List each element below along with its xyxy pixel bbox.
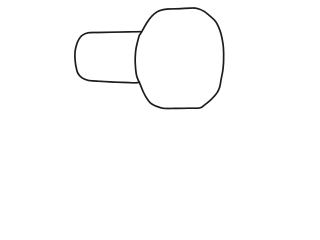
blob body outline — [135, 8, 223, 108]
sketch drawing — [0, 0, 300, 119]
tab outline — [75, 32, 141, 83]
